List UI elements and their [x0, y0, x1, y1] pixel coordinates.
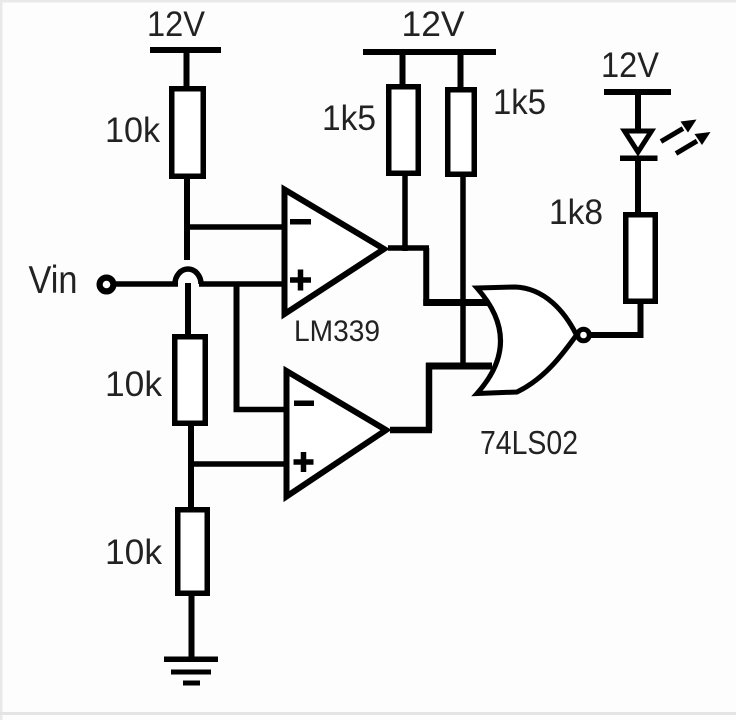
ground [164, 657, 218, 686]
wire: rail to R4 [400, 52, 406, 86]
svg-text:12V: 12V [402, 5, 466, 44]
svg-text:74LS02: 74LS02 [480, 424, 578, 461]
svg-text:10k: 10k [105, 365, 162, 404]
power rail 12V (divider branch) [150, 47, 221, 53]
wire: U1A output to corner [388, 245, 429, 251]
svg-text:10k: 10k [105, 111, 160, 150]
wire: rail to R5 [458, 52, 464, 89]
wire: NOR gate bottom input [426, 363, 492, 370]
svg-text:LM339: LM339 [294, 315, 380, 348]
power rail 12V (LED branch) [604, 89, 671, 95]
wire: R2 to node B and R3 [188, 426, 194, 509]
wire: node B to U1B non-inverting input [188, 461, 288, 467]
U1B non-inverting input symbol [294, 452, 314, 472]
resistor R6 1k8 [626, 215, 656, 302]
power rail 12V (pull-up branch) [363, 49, 496, 55]
resistor R5 1k5 [448, 90, 475, 175]
wire: LED to R6 [635, 160, 641, 214]
wire: U1B output to corner [390, 427, 432, 434]
svg-text:12V: 12V [601, 46, 660, 85]
wire: node A to R2 [185, 283, 191, 336]
wire: corner down to NOR top input [423, 248, 429, 305]
comparator U1A (LM339) [285, 190, 385, 315]
svg-text:1k8: 1k8 [549, 193, 603, 232]
wire: R4 to U1A output node [402, 174, 408, 251]
wire: R5 to U1B output net [460, 175, 466, 369]
svg-text:1k5: 1k5 [493, 83, 546, 122]
wire: Vin branch down toward U1B [234, 284, 240, 412]
wire: rail to LED [635, 93, 641, 132]
NOR gate U2 (74LS02) [477, 287, 577, 394]
resistor R4 1k5 [389, 87, 419, 174]
svg-text:10k: 10k [105, 533, 162, 572]
wire: NOR gate top input [423, 299, 492, 306]
wire: output up to R6 [638, 302, 644, 338]
wire: R3 to ground [189, 593, 195, 659]
U1A non-inverting input symbol [290, 270, 311, 291]
LED D1 [620, 131, 658, 161]
wire: node A to U1A inverting input [184, 224, 287, 230]
resistor R3 10k [178, 510, 208, 594]
U1A inverting input symbol [290, 219, 311, 225]
comparator U1B (LM339) [287, 371, 387, 497]
wire: NOR output [591, 332, 643, 338]
svg-text:12V: 12V [147, 5, 206, 44]
wire: corner up to NOR bottom input [426, 363, 433, 431]
terminal Vin [100, 278, 114, 292]
U1B inverting input symbol [294, 401, 314, 407]
wire: rail to R1 [184, 50, 190, 89]
svg-text:1k5: 1k5 [322, 99, 376, 138]
wire: Vin to U1A non-inverting input [113, 281, 178, 287]
resistor R1 10k [172, 89, 204, 177]
wire hop: divider line crossing over Vin line [175, 269, 201, 284]
svg-text:Vin: Vin [29, 259, 78, 302]
wire: branch to U1B inverting input [234, 407, 288, 413]
wire: R1 to node A [184, 176, 190, 260]
NOR output inversion bubble [578, 329, 590, 341]
resistor R2 10k [175, 337, 206, 424]
LED light emission arrows [661, 120, 711, 154]
